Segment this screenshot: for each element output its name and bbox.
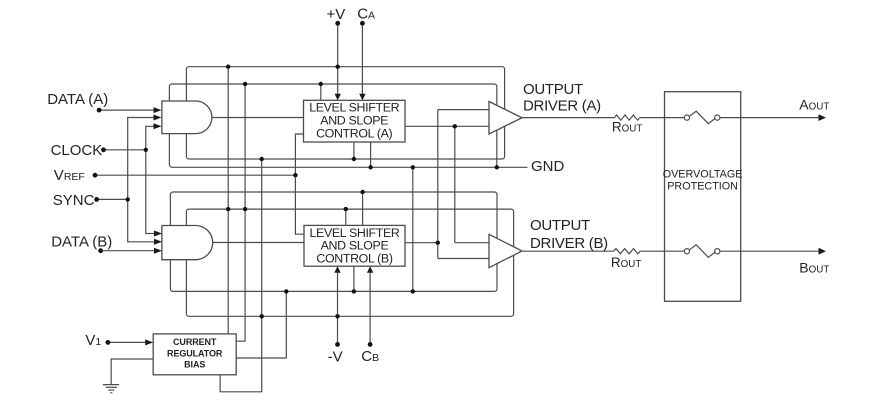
svg-text:LEVEL SHIFTER: LEVEL SHIFTER	[309, 101, 399, 115]
svg-text:AND SLOPE: AND SLOPE	[321, 239, 389, 253]
wire fuse B left lead	[665, 250, 685, 252]
terminal CLOCK	[101, 147, 106, 152]
wire driver B upper input	[455, 242, 489, 244]
wire protection A to AOUT	[741, 117, 820, 119]
wire SYNC vertical bus	[128, 118, 156, 242]
svg-text:+V: +V	[327, 6, 346, 23]
svg-text:CLOCK: CLOCK	[51, 142, 103, 159]
terminal +V	[335, 21, 340, 26]
node B1 bottom x261	[260, 314, 264, 318]
resistor Rout B	[614, 249, 640, 254]
node A1 top +V	[336, 65, 340, 69]
svg-text:DATA (A): DATA (A)	[47, 91, 108, 108]
arrow gate U1 input 3	[154, 123, 162, 129]
wire fuse B right lead	[720, 250, 741, 252]
wire CA pin	[361, 23, 363, 95]
arrow V1 into current regulator	[145, 339, 153, 345]
node GND x496	[495, 165, 499, 169]
svg-text:GND: GND	[531, 158, 565, 175]
svg-text:CONTROL (A): CONTROL (A)	[316, 126, 392, 140]
wire level shifter A output to driver A	[405, 125, 489, 127]
wire B1 top to level shifter B top pin	[345, 209, 347, 225]
terminal CB	[368, 342, 373, 347]
power rail loop A1 (+V)	[186, 67, 504, 159]
wire VREF riser to both level shifters	[295, 134, 304, 234]
terminal DATA (A)	[97, 108, 102, 113]
node A2 top x245	[243, 82, 247, 86]
svg-text:BIAS: BIAS	[184, 360, 205, 370]
wire B2 top to level shifter B top pin	[362, 192, 364, 225]
arrow CB into level shifter B	[367, 266, 373, 273]
node GND x412	[411, 165, 415, 169]
svg-text:DRIVER (B): DRIVER (B)	[530, 235, 608, 252]
wire fuse A left lead	[665, 117, 685, 119]
arrow gate U2 input 3	[154, 248, 162, 254]
node B1 top x245	[243, 207, 247, 211]
svg-text:CURRENT: CURRENT	[173, 337, 217, 347]
wire bias rail A2 top to current regulator	[236, 84, 245, 341]
rail loop B1	[186, 209, 513, 316]
wire A2 top to level shifter A top pin	[320, 84, 322, 100]
arrowheads	[145, 94, 826, 346]
svg-text:OUTPUT: OUTPUT	[530, 217, 590, 234]
node B2 bottom x286	[284, 289, 288, 293]
node B1 top x228	[226, 207, 230, 211]
box level shifter and slope control (A)	[304, 100, 406, 142]
arrow gate U1 input 1	[154, 107, 162, 113]
svg-text:DATA (B): DATA (B)	[51, 233, 112, 250]
terminal VREF	[93, 173, 98, 178]
terminal V1	[106, 340, 111, 345]
wire A1 bottom to current regulator bottom loop	[220, 159, 262, 392]
wire gate U2 output to level shifter B	[212, 242, 304, 244]
wire current regulator right pin to ground symbol	[111, 359, 153, 385]
svg-text:OUTPUT: OUTPUT	[523, 81, 583, 98]
node B2 top x362	[360, 190, 364, 194]
node A1 top x228	[226, 65, 230, 69]
terminal dots	[93, 21, 373, 347]
fuse circle A left	[684, 115, 689, 120]
wire level shifter A bottom pin to GND	[370, 142, 372, 167]
wire DATA (A) to gate U1	[99, 109, 155, 111]
node A2 top x320	[319, 82, 323, 86]
wire protection B to BOUT	[741, 250, 820, 252]
node B1 top x345	[344, 207, 348, 211]
svg-text:OVERVOLTAGE: OVERVOLTAGE	[663, 169, 743, 181]
wire level shifter B bottom pin to B2	[353, 266, 355, 291]
node CLOCK tee	[144, 148, 148, 152]
text level shifter A	[309, 101, 399, 141]
wire fuse A right lead	[720, 117, 741, 119]
arrow AOUT	[819, 114, 827, 121]
svg-text:REGULATOR: REGULATOR	[167, 348, 223, 358]
terminal DATA (B)	[98, 248, 103, 253]
wire V1 to current regulator	[108, 341, 148, 343]
svg-text:LEVEL SHIFTER: LEVEL SHIFTER	[309, 226, 399, 240]
wire SYNC horizontal	[97, 198, 128, 200]
wire DATA (B) to gate U2	[101, 250, 156, 252]
wire CLOCK horizontal	[104, 149, 146, 151]
node A1 bottom x353	[352, 157, 356, 161]
node A1 bottom x261	[260, 157, 264, 161]
svg-text:-V: -V	[328, 349, 343, 366]
op-amp output driver B	[489, 234, 522, 267]
svg-text:DRIVER (A): DRIVER (A)	[523, 98, 601, 115]
fuse element B	[690, 245, 715, 257]
rail loop B2	[170, 192, 497, 291]
wire cross-couple vertical from box A out	[454, 126, 456, 242]
node box B out x437	[436, 241, 440, 245]
wire CLOCK vertical bus	[146, 126, 156, 233]
arrow BOUT	[819, 248, 827, 255]
wire B2 bottom to current regulator	[236, 291, 286, 358]
svg-text:PROTECTION: PROTECTION	[667, 180, 738, 192]
arrow CA into level shifter A	[359, 94, 365, 101]
wire +V pin	[337, 23, 339, 95]
terminal CA	[360, 21, 365, 26]
fuse circle B right	[715, 249, 720, 254]
node B1 bottom -V	[335, 314, 339, 318]
svg-text:CONTROL (B): CONTROL (B)	[316, 252, 392, 266]
op-amp output driver A	[489, 102, 522, 135]
wire driver B output to Rout	[522, 250, 614, 252]
text overvoltage protection	[663, 169, 743, 193]
node box A out x454	[453, 124, 457, 128]
text current regulator bias	[167, 337, 223, 369]
wire VREF horizontal	[95, 174, 295, 176]
wire +V rail drop A1 to current regulator	[227, 67, 229, 334]
resistor Rout A	[615, 115, 640, 120]
text level shifter B	[309, 226, 399, 266]
svg-text:AND SLOPE: AND SLOPE	[320, 114, 388, 128]
fuse circle B left	[684, 249, 689, 254]
terminal -V	[335, 342, 340, 347]
box current regulator bias	[153, 334, 236, 375]
wire level shifter B output	[405, 242, 438, 244]
ground symbol	[103, 385, 119, 393]
wire cross-couple vertical from box B out	[437, 110, 439, 259]
node SYNC tee	[126, 197, 130, 201]
fuse element A	[690, 111, 715, 124]
svg-text:SYNC: SYNC	[53, 192, 95, 209]
and-gate U1 (channel A)	[162, 101, 212, 134]
wire -V pin	[337, 271, 339, 344]
and-gate U2 (channel B)	[162, 226, 213, 260]
node B2 bottom x412	[411, 289, 415, 293]
wire GND stub to label	[497, 166, 528, 168]
wire driver B lower input	[438, 258, 489, 260]
wire gate U1 output to level shifter A	[212, 117, 304, 119]
node VREF x295	[293, 173, 297, 177]
wire level shifter A bottom pin to A1	[353, 142, 355, 159]
arrow gate U1 input 2	[154, 115, 162, 121]
arrow -V into level shifter B	[334, 266, 340, 273]
wire Rout A to protection box	[640, 117, 665, 119]
rail loop A2 (GND side)	[169, 84, 496, 167]
box overvoltage protection	[665, 92, 741, 302]
arrow +V into level shifter A	[335, 94, 341, 101]
wire CB pin	[369, 271, 371, 344]
wire driver A upper input	[438, 109, 489, 111]
wire Rout B to protection box	[640, 250, 664, 252]
fuse circle A right	[715, 115, 720, 120]
wire driver A output to Rout	[522, 117, 615, 119]
node GND x370	[368, 165, 372, 169]
wire GND to B2 bottom	[412, 167, 414, 291]
terminal SYNC	[94, 197, 99, 202]
arrow gate U2 input 2	[154, 239, 162, 245]
arrow gate U2 input 1	[154, 231, 162, 237]
node B2 bottom x353	[352, 289, 356, 293]
box level shifter and slope control (B)	[304, 225, 405, 266]
